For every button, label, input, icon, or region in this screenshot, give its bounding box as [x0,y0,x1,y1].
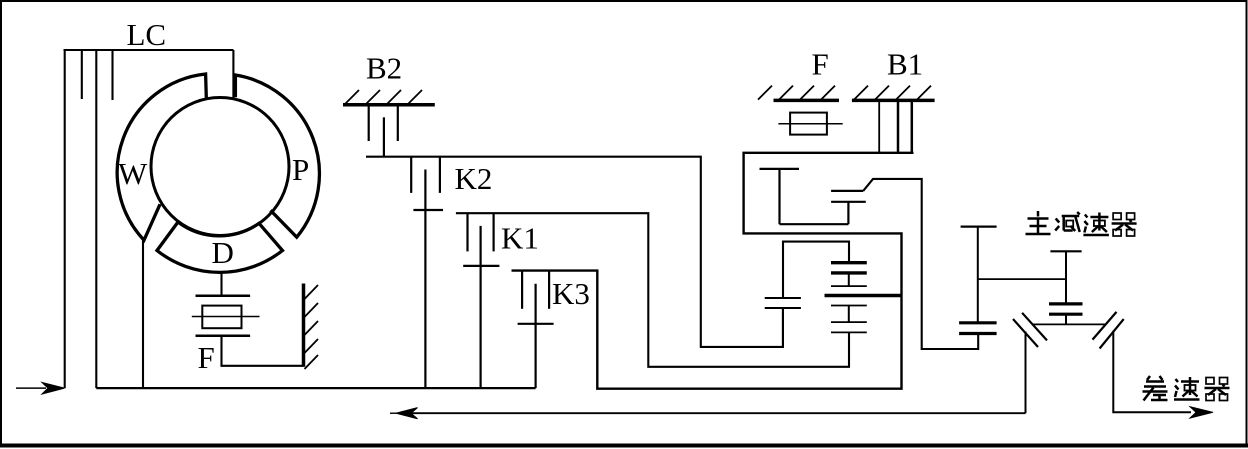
K2 plate 2 [439,157,441,193]
arrow to differential [1190,407,1213,418]
clutch K2 plate 1 [410,157,412,193]
input arrow [16,383,65,395]
B1 plate 2 [897,100,900,153]
K1 hub stem [480,226,482,388]
B2 plate 2 [397,105,399,141]
B2 hub stem [383,117,385,157]
torque converter hub circle [151,98,289,236]
wire T1 to T2 [978,278,1066,280]
output gear pair [959,323,997,334]
char su2 [1174,377,1200,400]
char qi2 [1205,378,1230,401]
gear bar B1b [831,305,867,307]
svg-text:F: F [198,340,215,375]
planet mesh left bar 1 [765,297,801,299]
stator D segment [157,222,283,272]
F mid line [192,316,260,318]
wire long return arrow [390,408,1026,419]
gear bar B3b [831,331,867,333]
F2 body rectangle [790,113,827,135]
gear bar A1 [831,261,867,264]
planet stem lower [782,308,784,347]
joint slash right pair [1093,312,1124,349]
svg-text:K2: K2 [455,161,493,196]
bevel gear pair C2 [1049,304,1083,325]
char su [1083,213,1109,236]
LC plate 2 [111,50,113,100]
gear bar A3 [831,285,867,287]
B1 plate 1 [878,100,880,153]
char qi [1112,213,1137,236]
LC plate 1 [81,50,83,99]
K2 hub stem [424,170,426,389]
front carrier T [760,169,849,224]
K3 hub stem [534,284,536,388]
K3 hub bar [518,323,554,325]
one-way clutch F2 ground [774,99,840,103]
svg-text:W: W [118,156,148,191]
wire F to ground wall [222,336,304,366]
wire to differential left [1025,332,1027,414]
wire turbine output [142,240,144,388]
wire shaft S3 (K3 drum, rear ring) [512,153,914,389]
B1 plate 3 [911,100,914,154]
ground wall [302,284,306,367]
sun gear shaft [825,294,902,297]
wire shaft S1 (B2/K2 drum) [366,157,783,347]
svg-text:B1: B1 [887,47,923,82]
svg-text:P: P [292,152,309,187]
turbine W segment [117,74,206,240]
front clutch upper bar [831,190,863,192]
B2 hatching [345,90,422,104]
B2 plate 1 [368,105,370,141]
planet mesh left bar 2 [765,307,801,309]
wire to differential right [1113,331,1191,413]
wire shaft S2 (K1 drum) [456,213,849,367]
pump P segment [235,75,319,237]
wire LC to converter housing [232,50,234,99]
svg-text:K3: K3 [552,276,590,311]
wire pump shaft [95,50,97,388]
F top bar [196,295,251,298]
svg-text:F: F [812,47,829,82]
ground wall hatching [305,285,319,369]
ring gear box [783,242,849,298]
brake B2 ground [343,103,435,107]
char cha [1143,376,1168,401]
K1 hub bar [463,265,499,267]
K2 hub bar [413,209,443,211]
gear bar B2b [831,321,867,323]
clutch K3 plate 1 [521,271,523,309]
gear bar A2 [831,271,867,274]
F2 mid line [778,123,842,125]
K3 plate 2 [548,271,550,309]
B1 hatching [854,86,931,100]
label differential 差速器 [1143,376,1230,401]
char jian [1055,212,1080,232]
clutch K1 plate 1 [466,213,468,251]
one-way clutch F (stator) stem [220,273,222,296]
wire clutch to output shaft [863,179,978,349]
K1 plate 2 [493,213,495,251]
wire input shaft left [64,50,66,388]
F body rectangle [202,306,241,329]
char zhu [1026,211,1051,234]
joint slash left pair [1013,313,1047,347]
lock-up clutch LC top bar [64,49,234,51]
F2 hatching [758,86,835,100]
F bottom bar [196,334,251,337]
svg-text:B2: B2 [366,51,402,86]
gear stem B1-B2 [848,306,850,323]
front clutch lower bar [831,201,866,203]
final drive pinion T1 [961,227,997,323]
label main reducer 主减速器 [1026,211,1137,236]
brake B1 ground [852,99,935,103]
svg-text:K1: K1 [501,221,539,256]
gear stem A2-A3 [848,273,850,286]
wire bevel axle [1033,323,1106,325]
final drive T2 [1050,251,1081,304]
wire main input shaft bottom [96,387,535,389]
svg-text:D: D [212,235,234,270]
svg-text:LC: LC [127,17,167,52]
